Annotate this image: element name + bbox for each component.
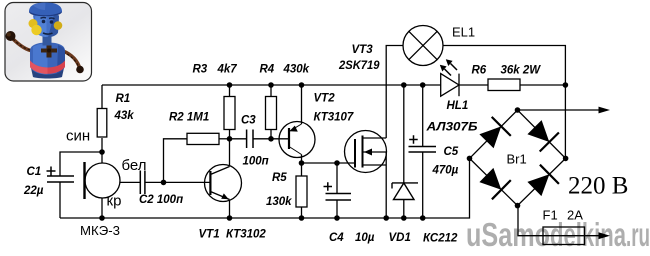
- mains terminal arrow top: [599, 107, 611, 114]
- junction VT1 emitter ground: [227, 215, 233, 221]
- neck: [43, 37, 52, 46]
- wire R1 top lead from rail corner: [101, 85, 103, 108]
- wire node A to C3: [230, 138, 247, 140]
- junction VD1 ground: [401, 215, 407, 221]
- bridge rectifier Br1 diode D3 (left-bottom): [479, 168, 510, 199]
- svg-text:2А: 2А: [567, 208, 583, 223]
- svg-text:C3: C3: [241, 115, 256, 127]
- svg-text:36k 2W: 36k 2W: [501, 65, 542, 77]
- right arm rope: [63, 51, 80, 69]
- capacitor C3: [247, 130, 253, 149]
- svg-text:4k7: 4k7: [217, 64, 238, 76]
- left fist: [6, 31, 16, 41]
- svg-text:C4: C4: [329, 232, 344, 244]
- wire mic bottom (кр): [101, 198, 103, 218]
- svg-text:100п: 100п: [243, 156, 269, 168]
- left ear: [29, 19, 38, 28]
- lamp EL1: [403, 26, 443, 66]
- wire VT3 source to ground rail: [385, 152, 387, 218]
- svg-text:R3: R3: [193, 64, 208, 76]
- svg-text:uSamo: uSamo: [466, 216, 550, 253]
- svg-text:R4: R4: [260, 64, 275, 76]
- wire R5 top lead: [301, 163, 303, 176]
- wire VT2 collector to node B: [301, 155, 303, 164]
- fuse F1: [543, 227, 585, 245]
- wire VT2 emitter to supply rail: [301, 85, 303, 124]
- svg-text:VD1: VD1: [389, 232, 411, 244]
- junction VD1 top rail: [401, 82, 407, 88]
- resistor R1: [97, 109, 107, 138]
- svg-text:C1: C1: [27, 166, 42, 178]
- wire R5 bottom lead: [301, 207, 303, 218]
- svg-text:C5: C5: [444, 146, 459, 158]
- wire C4 bottom lead: [336, 200, 338, 218]
- svg-text:EL1: EL1: [452, 25, 475, 40]
- wire C4 top lead: [336, 163, 338, 194]
- head: [33, 13, 59, 37]
- wire EL1 right to bridge right node: [443, 46, 565, 159]
- junction R2/base node: [161, 180, 167, 186]
- wire R2 left lead down to base node: [164, 139, 188, 183]
- svg-text:КТ3107: КТ3107: [314, 112, 354, 124]
- svg-text:R1: R1: [116, 93, 131, 105]
- wire R4 top lead: [270, 85, 272, 97]
- right ear: [54, 21, 63, 30]
- svg-text:220 В: 220 В: [568, 173, 628, 200]
- junction node B (VT2 collector/R5/gate): [299, 160, 305, 166]
- junction bridge bottom node: [515, 203, 521, 209]
- mains terminal arrow bottom: [599, 232, 611, 239]
- junction C5 ground: [420, 215, 426, 221]
- svg-text:HL1: HL1: [447, 100, 469, 112]
- wire HL1 cathode to R6: [459, 84, 488, 86]
- svg-text:R6: R6: [472, 65, 487, 77]
- wire R3 top lead: [229, 85, 231, 97]
- mouth: [43, 33, 53, 34]
- zener diode VD1 КС212: [392, 183, 418, 200]
- svg-text:АЛ307Б: АЛ307Б: [425, 122, 477, 134]
- wire mic output (бел) to C2: [120, 181, 140, 183]
- wire R6 to EL1/bridge node: [520, 84, 565, 86]
- resistor R3: [224, 97, 235, 130]
- junction bridge top node: [515, 107, 521, 113]
- junction mic ground: [99, 215, 105, 221]
- svg-text:delkina: delkina: [550, 216, 626, 253]
- wire bottom ground rail: [60, 158, 470, 218]
- svg-text:C2 100п: C2 100п: [139, 194, 183, 206]
- svg-text:VT3: VT3: [352, 44, 374, 56]
- wire R1 bottom lead to mic node: [101, 138, 103, 163]
- belt: [30, 61, 65, 74]
- svg-text:VT1 КТ3102: VT1 КТ3102: [199, 229, 267, 241]
- wire VT1 collector: [229, 139, 231, 167]
- wire C5 bottom lead: [422, 152, 424, 218]
- wire VD1 top lead: [403, 85, 405, 183]
- resistor R6: [488, 79, 520, 91]
- svg-text:F1: F1: [543, 208, 558, 223]
- nose: [31, 25, 41, 35]
- LED HL1 АЛ307Б: [440, 59, 459, 96]
- junction C4 top: [334, 160, 340, 166]
- wire VD1 bottom lead: [403, 200, 405, 219]
- wire bridge bottom node through fuse F1 to mains arrow: [518, 206, 600, 236]
- svg-text:470µ: 470µ: [432, 165, 459, 177]
- resistor R2: [187, 133, 219, 144]
- junction R5 ground: [299, 215, 305, 221]
- svg-text:КС212: КС212: [423, 233, 458, 245]
- svg-text:бел: бел: [122, 157, 147, 174]
- brows: [41, 17, 47, 20]
- svg-text:Br1: Br1: [507, 152, 527, 167]
- junction R3 top: [227, 82, 233, 88]
- junction R4 bottom: [268, 136, 274, 142]
- transistor VT1 КТ3102: [205, 165, 242, 202]
- svg-text:МКЭ-3: МКЭ-3: [80, 223, 120, 238]
- junction C4 ground: [334, 215, 340, 221]
- left arm rope: [12, 38, 33, 51]
- junction VT2 emitter rail: [299, 82, 305, 88]
- wire R2 right lead to node A: [219, 138, 230, 140]
- wire VT1 emitter to ground rail: [229, 200, 231, 219]
- svg-text:430k: 430k: [283, 64, 310, 76]
- resistor R5: [296, 176, 307, 207]
- wire C1 bottom to ground rail: [59, 182, 61, 218]
- svg-text:10µ: 10µ: [355, 232, 375, 244]
- junction R6/EL1 right node: [563, 82, 569, 88]
- capacitor C5: [409, 135, 437, 152]
- wire R3 bottom lead to node A: [229, 130, 231, 139]
- wire top supply rail: [102, 84, 441, 86]
- bridge rectifier Br1 diode D1 (left-top): [479, 117, 510, 148]
- junction bridge left node: [467, 156, 473, 162]
- eyes: [42, 20, 46, 24]
- wire C2 to VT1 base: [145, 181, 210, 183]
- junction VT3 source ground: [383, 215, 389, 221]
- wire VT3 drain up to EL1 branch: [386, 46, 403, 139]
- svg-text:VT2: VT2: [314, 93, 336, 105]
- capacitor C2: [140, 171, 145, 195]
- bridge rectifier Br1 diode D2 (top-right): [527, 120, 559, 151]
- svg-text:22µ: 22µ: [23, 185, 44, 197]
- wire C5 top lead: [422, 85, 424, 147]
- junction R4 top: [268, 82, 274, 88]
- svg-text:R5: R5: [272, 172, 287, 184]
- capacitor C1: [47, 167, 75, 183]
- resistor R4: [266, 97, 277, 130]
- wire bridge top node to mains arrow: [518, 109, 601, 111]
- svg-text:130k: 130k: [266, 196, 292, 208]
- bridge rectifier Br1 diode D4 (bottom-right): [527, 165, 559, 196]
- wire bridge diamond edges: [470, 110, 566, 206]
- capacitor C4: [324, 182, 352, 200]
- svg-text:кр: кр: [107, 193, 122, 210]
- junction R1/C1/mic node: [99, 149, 105, 155]
- svg-text:.ru: .ru: [626, 216, 650, 253]
- photo of plasticine figure: [5, 3, 92, 82]
- body: [30, 43, 65, 75]
- wire R4 bottom lead: [270, 130, 272, 139]
- base feet: [31, 68, 64, 79]
- svg-text:син: син: [66, 128, 90, 145]
- svg-text:2SK719: 2SK719: [338, 60, 380, 72]
- microphone BM1 МКЭ-3: [85, 162, 121, 199]
- wire C3 to VT2 base: [253, 138, 289, 140]
- hat: [29, 3, 62, 17]
- junction C5 top rail: [420, 82, 426, 88]
- wire node B to VT3 gate: [302, 162, 356, 164]
- chest strap: [41, 49, 57, 53]
- svg-text:43k: 43k: [114, 110, 135, 122]
- transistor VT2 КТ3107: [279, 122, 315, 158]
- junction bridge right node: [563, 156, 569, 162]
- svg-text:R2 1М1: R2 1М1: [169, 112, 209, 124]
- wire node R1/C1/mic to C1: [60, 152, 102, 176]
- junction node A (R2/R3/C3/VT1 collector): [227, 136, 233, 142]
- transistor VT3 2SK719 MOSFET: [345, 131, 387, 173]
